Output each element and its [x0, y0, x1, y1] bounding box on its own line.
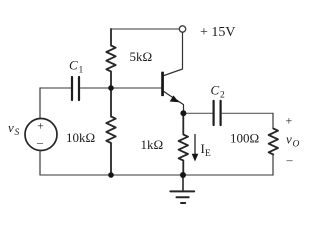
transistor Q1 base bar: [161, 72, 164, 96]
svg-text:5kΩ: 5kΩ: [130, 49, 153, 64]
wire output vertical bottom: [272, 155, 274, 176]
source vS circle: [25, 119, 57, 151]
resistor R 10k: [106, 88, 115, 175]
wire base: [111, 87, 161, 89]
resistor R 100: [269, 129, 278, 155]
node emitter dot: [180, 110, 186, 116]
svg-text:C: C: [69, 58, 78, 73]
svg-text:v: v: [8, 120, 14, 135]
svg-text:+: +: [286, 114, 293, 128]
node ground dot: [180, 172, 186, 178]
svg-text:100Ω: 100Ω: [230, 131, 259, 146]
wire source bottom lead: [39, 151, 41, 175]
svg-text:2: 2: [220, 91, 225, 101]
node base dot: [108, 85, 114, 91]
transistor Q1 emitter arrowhead: [170, 95, 179, 102]
svg-text:+ 15V: + 15V: [200, 25, 236, 40]
capacitor C2: [186, 101, 273, 125]
wire input vertical: [39, 88, 41, 118]
svg-text:–: –: [36, 135, 44, 149]
svg-text:1: 1: [79, 66, 84, 76]
resistor R 1k: [179, 113, 188, 175]
svg-text:E: E: [205, 149, 211, 159]
svg-text:v: v: [286, 132, 292, 147]
resistor R 5k: [106, 29, 115, 88]
ground: [170, 175, 194, 203]
node 10k-bottom dot: [108, 172, 114, 178]
current IE arrowhead: [192, 154, 199, 162]
svg-text:1kΩ: 1kΩ: [141, 137, 164, 152]
transistor Q1 emitter: [164, 92, 184, 111]
wire top rail: [111, 28, 179, 30]
svg-text:O: O: [293, 140, 300, 150]
wire collector lead: [164, 32, 183, 75]
svg-text:+: +: [37, 121, 44, 133]
svg-text:S: S: [15, 128, 20, 138]
current IE arrow line: [194, 135, 196, 157]
svg-text:C: C: [211, 83, 220, 98]
svg-text:10kΩ: 10kΩ: [66, 130, 95, 145]
capacitor C1: [40, 77, 111, 100]
wire output vertical top: [272, 113, 274, 128]
wire bottom rail: [40, 174, 273, 176]
terminal +15V: [179, 26, 185, 32]
svg-text:–: –: [286, 153, 294, 167]
